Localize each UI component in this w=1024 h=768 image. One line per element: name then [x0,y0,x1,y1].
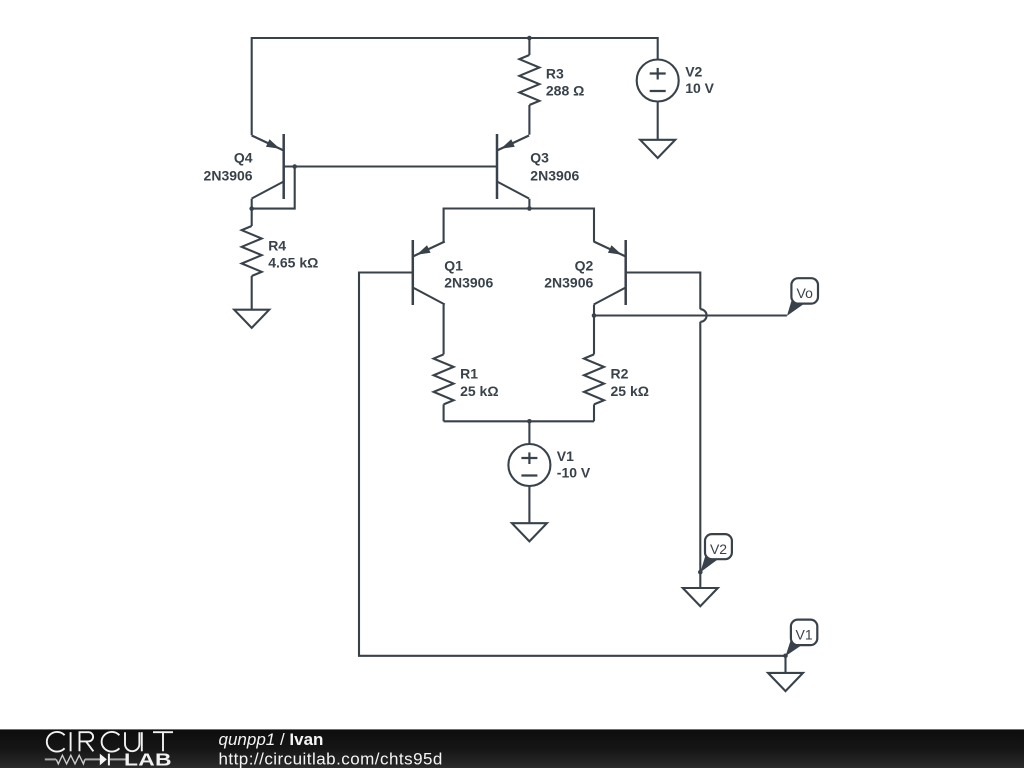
footer bar [0,729,1024,768]
wire V1 flag ground stem [784,656,786,673]
wire Vo output run [594,314,787,316]
wire Q4 base to Q3 base [284,165,497,167]
footer title qunpp1 / Ivan [219,730,324,749]
flag V1 [786,620,818,657]
svg-text:Q3: Q3 [530,150,549,166]
label R3 [546,66,584,99]
node Q4 base tie [292,164,297,169]
svg-text:qunpp1 / Ivan: qunpp1 / Ivan [219,730,324,749]
wire bottom join R1-R2 [444,420,594,422]
ground V1 flag [768,673,803,691]
resistor R4 [242,199,262,310]
label Q2 [544,258,593,291]
svg-text:http://circuitlab.com/chts95d: http://circuitlab.com/chts95d [219,750,443,768]
node V2 flag junction [698,570,703,575]
ground V2 source [640,140,675,158]
svg-text:LAB: LAB [124,750,172,768]
voltage source V1 [508,444,550,523]
ground V2 flag [683,588,718,606]
svg-text:2N3906: 2N3906 [544,275,593,291]
svg-text:R4: R4 [268,237,286,253]
node Q2 collector junction [592,313,597,318]
wire Q3 collector stub [528,199,530,209]
node Q4 collector junction [249,206,254,211]
logo resistor zigzag [56,755,85,764]
wire base-collector tie of Q4 [252,167,295,209]
logo diode [100,754,109,766]
label Q3 [530,150,579,184]
label V2 source [685,63,714,96]
logo resistor-diode squiggle [45,758,126,760]
label R1 [460,366,498,399]
svg-text:Q4: Q4 [234,150,253,166]
svg-text:288 Ω: 288 Ω [546,83,584,99]
svg-text:2N3906: 2N3906 [530,168,579,184]
svg-text:Q2: Q2 [575,258,594,274]
ground V1 source [512,523,547,541]
svg-text:V2: V2 [710,541,727,557]
svg-text:4.65 kΩ: 4.65 kΩ [268,254,318,270]
wire stub to V1 [528,421,530,444]
label Q4 [204,150,253,184]
label V1 source [557,448,591,481]
transistor Q4 [252,134,284,199]
node top rail junction [527,36,532,41]
node V1 flag junction [783,654,788,659]
wire Q2 base with hop over Vo wire [626,273,707,573]
node Q3 collector junction [527,206,532,211]
svg-text:25 kΩ: 25 kΩ [611,383,649,399]
transistor Q2 [594,240,626,305]
wire top rail [252,38,658,135]
footer url [219,750,443,768]
svg-text:Vo: Vo [797,285,814,301]
svg-text:R3: R3 [546,66,564,82]
svg-text:V2: V2 [685,63,702,79]
svg-text:-10 V: -10 V [557,465,591,481]
svg-text:V1: V1 [796,626,813,642]
voltage source V2 [637,60,679,140]
svg-text:25 kΩ: 25 kΩ [460,383,498,399]
transistor Q3 [497,134,529,199]
resistor R1 [434,305,454,422]
flag V2 [700,534,732,572]
label Q1 [444,258,493,291]
label R4 [268,237,318,270]
resistor R2 [584,316,604,422]
wire Q2 collector stub [593,305,595,316]
transistor Q1 [413,240,445,305]
label R2 [611,366,649,399]
svg-text:2N3906: 2N3906 [204,168,253,184]
svg-text:R2: R2 [611,366,629,382]
svg-text:Q1: Q1 [444,258,463,274]
node bottom join [527,419,532,424]
logo LAB text [124,750,172,768]
logo CIRCUIT wordmark [47,732,173,752]
svg-text:V1: V1 [557,448,574,464]
resistor R3 [519,38,539,135]
ground R4 [234,310,269,328]
wire V2 flag ground stem [699,572,701,588]
svg-text:10 V: 10 V [685,80,714,96]
svg-text:2N3906: 2N3906 [444,275,493,291]
wire Q1 base to left rail and bottom run to V1 flag [359,273,786,656]
svg-text:R1: R1 [460,366,478,382]
flag Vo [787,278,818,316]
wire emitter rail Q1-Q2 [444,209,594,242]
